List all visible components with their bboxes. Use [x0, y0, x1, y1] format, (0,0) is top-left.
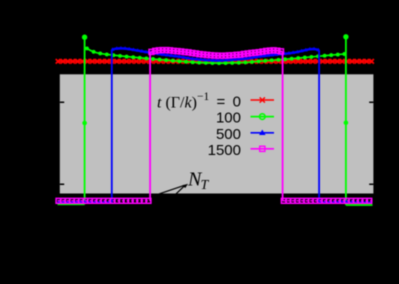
curve t=100 green bottom-left segment [58, 203, 85, 205]
curve t=0 red line [58, 60, 373, 62]
curve t=1500 magenta top arc [150, 50, 283, 56]
curve t=100 green top curve [86, 48, 346, 63]
svg-text:0: 0 [233, 94, 241, 111]
curve t=1500 magenta bottom-left segment [58, 200, 151, 202]
legend sample t=1500 magenta [251, 148, 275, 150]
svg-text:100: 100 [216, 110, 241, 127]
svg-text:T: T [201, 178, 210, 193]
curve t=100 green right vertical spike [345, 35, 347, 205]
curve t=100 green left vertical spike [84, 35, 86, 205]
legend sample t=100 green [251, 116, 275, 118]
svg-text:500: 500 [216, 126, 241, 143]
svg-text:=: = [217, 94, 226, 111]
plot shaded region (gray box) [60, 74, 374, 193]
legend sample t=0 red [251, 99, 275, 101]
curve t=1500 magenta right vertical [282, 52, 284, 201]
curve t=1500 magenta left vertical [149, 53, 151, 201]
curve t=500 blue bottom-right segment [319, 201, 372, 203]
green spike top markers and mid markers [82, 34, 349, 125]
y-axis tick left upper [60, 102, 64, 104]
y-axis tick left lower [60, 184, 64, 186]
curve t=1500 magenta square markers [149, 48, 284, 59]
curve t=500 blue top curve [112, 48, 319, 60]
svg-text:1500: 1500 [208, 142, 241, 159]
curve t=500 blue bottom-left segment [58, 201, 112, 203]
y-axis tick right upper [369, 102, 373, 104]
annotation arrow lines to N_T [155, 185, 185, 196]
curve t=500 blue left vertical [111, 50, 113, 203]
curve t=500 blue triangle markers [111, 46, 321, 62]
curve t=100 green bottom-right segment [346, 204, 373, 206]
curve t=100 green circle markers [85, 46, 346, 65]
svg-text:t (Γ/k): t (Γ/k) [157, 94, 197, 111]
curve t=500 blue right vertical [318, 50, 320, 202]
y-axis tick right lower [369, 184, 373, 186]
annotation arrowhead [182, 184, 188, 188]
legend sample t=500 blue [251, 132, 275, 134]
curve t=0 red x markers [56, 59, 374, 64]
svg-text:−1: −1 [197, 91, 209, 103]
curve t=1500 magenta bottom-right segment [283, 200, 373, 202]
